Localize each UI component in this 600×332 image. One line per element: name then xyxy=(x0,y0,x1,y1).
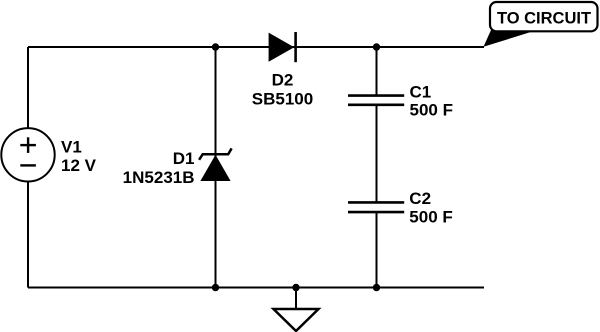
svg-text:D1: D1 xyxy=(173,149,195,168)
svg-text:V1: V1 xyxy=(61,137,82,156)
svg-text:C1: C1 xyxy=(410,82,432,101)
svg-text:TO CIRCUIT: TO CIRCUIT xyxy=(497,10,591,28)
svg-text:SB5100: SB5100 xyxy=(252,89,313,108)
svg-text:500 F: 500 F xyxy=(409,207,452,226)
svg-text:1N5231B: 1N5231B xyxy=(123,168,195,187)
svg-text:D2: D2 xyxy=(272,71,294,90)
svg-text:500 F: 500 F xyxy=(410,101,453,120)
svg-text:12 V: 12 V xyxy=(61,156,97,175)
svg-text:C2: C2 xyxy=(409,189,431,208)
